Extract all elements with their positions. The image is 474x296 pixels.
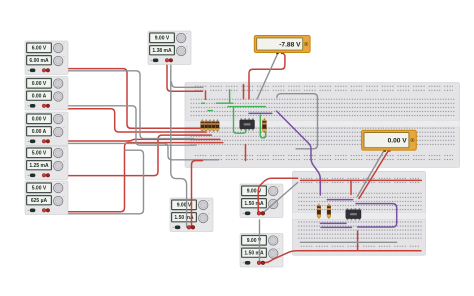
svg-text:0.00 V: 0.00 V — [32, 81, 47, 87]
svg-text:6.00 mA: 6.00 mA — [29, 58, 49, 64]
svg-text:1.25 mA: 1.25 mA — [29, 163, 49, 169]
svg-text:1.38 mA: 1.38 mA — [152, 48, 172, 54]
svg-text:9.00 V: 9.00 V — [177, 203, 192, 209]
svg-text:0.00 A: 0.00 A — [32, 129, 47, 135]
svg-text:-7.88 V: -7.88 V — [279, 41, 301, 48]
svg-text:625 µA: 625 µA — [31, 198, 48, 204]
svg-text:9.00 V: 9.00 V — [155, 36, 170, 42]
svg-text:1.50 mA: 1.50 mA — [244, 201, 264, 207]
svg-text:5.00 V: 5.00 V — [32, 151, 47, 157]
svg-text:0.00 V: 0.00 V — [388, 138, 408, 145]
svg-text:1.50 mA: 1.50 mA — [244, 251, 264, 257]
svg-text:0.00 V: 0.00 V — [32, 117, 47, 123]
svg-text:0.00 A: 0.00 A — [32, 94, 47, 100]
svg-text:9.00 V: 9.00 V — [247, 189, 262, 195]
svg-text:6.00 V: 6.00 V — [32, 46, 47, 52]
svg-text:5.00 V: 5.00 V — [32, 186, 47, 192]
